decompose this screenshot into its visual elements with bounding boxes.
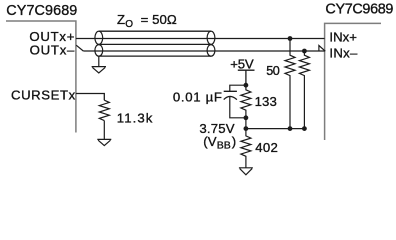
resistor R4 50 (left) <box>285 39 295 129</box>
ground (R1) <box>97 139 111 145</box>
svg-text:402: 402 <box>255 140 278 155</box>
svg-text:50: 50 <box>266 64 280 78</box>
wire coax shield to ground <box>98 56 100 67</box>
svg-text:= 50Ω: = 50Ω <box>141 12 177 27</box>
node B junction dot <box>244 115 249 120</box>
svg-text:CY7C9689: CY7C9689 <box>325 2 393 18</box>
node junction dot R5 bottom <box>302 126 307 131</box>
wire +5V to node <box>245 70 247 85</box>
transmission line T1 shield top <box>99 30 211 32</box>
svg-text:OUTx–: OUTx– <box>30 43 75 58</box>
chip U1 outline (left) <box>6 21 76 133</box>
wire capacitor to node B <box>230 97 246 118</box>
resistor R1 11.3k <box>99 100 109 120</box>
node VBB junction dot <box>244 126 249 131</box>
wire VBB rail <box>246 128 305 130</box>
node junction dot R4 bottom <box>288 126 293 131</box>
transmission line shield middle <box>99 43 211 45</box>
wire OUTx+ to INx+ (line1) <box>76 38 325 40</box>
svg-text:O: O <box>125 19 133 30</box>
capacitor C1 0.01uF <box>224 91 237 99</box>
coax end ellipse left top <box>95 31 103 44</box>
svg-text:+5V: +5V <box>230 57 254 72</box>
wire R1 to ground <box>103 121 105 140</box>
svg-text:Z: Z <box>117 12 125 27</box>
svg-text:(V: (V <box>203 134 216 149</box>
INx- input arrow <box>319 46 325 52</box>
svg-text:CY7C9689: CY7C9689 <box>6 3 77 19</box>
svg-text:BB: BB <box>217 140 231 152</box>
transmission line shield bottom <box>99 55 211 57</box>
power rail +5V bar <box>238 69 255 71</box>
resistor R2 133 <box>241 85 251 128</box>
node A junction dot <box>244 83 249 88</box>
ground (coax shield) <box>92 67 106 73</box>
coax end ellipse right bottom <box>207 45 215 57</box>
svg-text:0.01 µF: 0.01 µF <box>173 90 222 105</box>
svg-text:11.3k: 11.3k <box>117 110 153 125</box>
wire OUTx- pin diagonal <box>76 45 83 51</box>
wire OUTx- to INx- (line2) <box>83 50 324 52</box>
wire node A to capacitor <box>230 85 246 91</box>
svg-text:INx–: INx– <box>329 45 358 60</box>
resistor R3 402 <box>241 129 251 168</box>
wire CURSETx pin <box>76 94 104 101</box>
chip U2 outline (right) <box>325 23 381 140</box>
svg-text:CURSETx: CURSETx <box>11 87 76 102</box>
coax end ellipse left bottom <box>95 45 103 57</box>
ground (R3) <box>239 168 253 175</box>
node junction dot on line1 <box>288 36 293 41</box>
resistor R5 50 (right) <box>299 51 309 129</box>
svg-text:INx+: INx+ <box>329 30 357 45</box>
svg-text:): ) <box>232 134 236 149</box>
svg-text:133: 133 <box>255 94 277 109</box>
node junction dot on line2 <box>302 49 307 54</box>
coax end ellipse right top <box>207 31 215 44</box>
